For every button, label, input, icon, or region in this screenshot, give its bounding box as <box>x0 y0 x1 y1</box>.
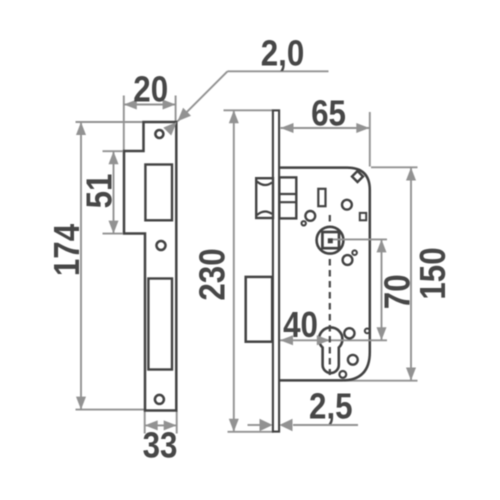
svg-text:230: 230 <box>193 248 234 300</box>
svg-text:40: 40 <box>283 305 318 346</box>
svg-text:174: 174 <box>47 224 88 276</box>
svg-text:65: 65 <box>311 93 346 134</box>
svg-text:2,0: 2,0 <box>261 33 305 74</box>
svg-text:150: 150 <box>413 247 454 299</box>
svg-text:2,5: 2,5 <box>309 386 353 427</box>
svg-text:33: 33 <box>143 425 178 466</box>
svg-text:20: 20 <box>133 69 168 110</box>
svg-text:70: 70 <box>377 274 418 309</box>
svg-text:51: 51 <box>80 174 121 209</box>
